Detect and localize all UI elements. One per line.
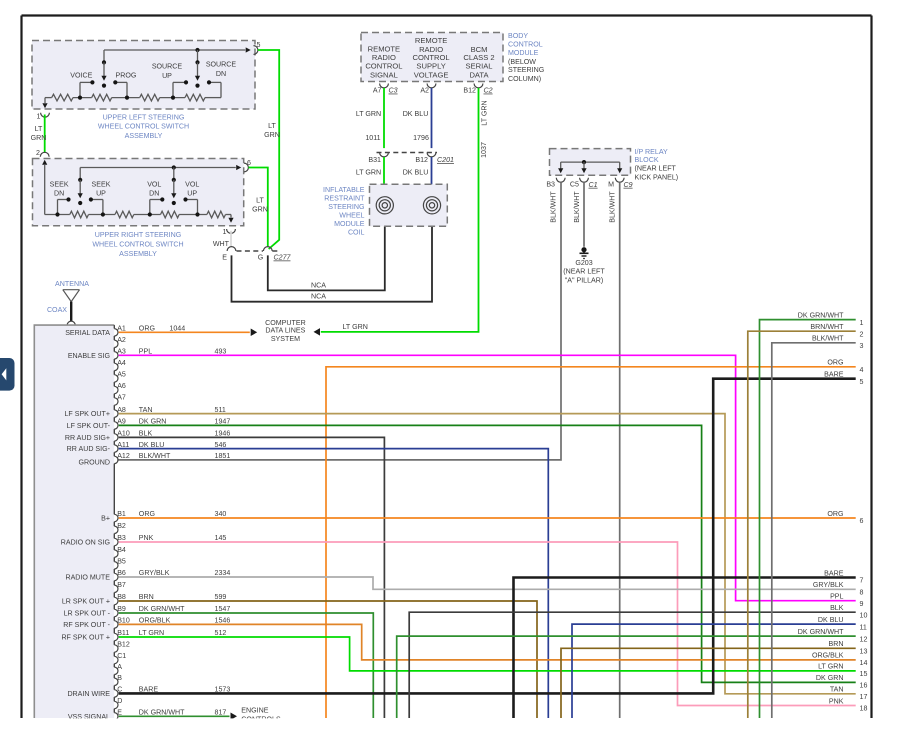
wire LT GRN 1011 BCM A7 to C201 B31	[383, 88, 385, 148]
svg-text:A6: A6	[117, 382, 126, 390]
switch VOL UP contact	[183, 197, 197, 214]
svg-text:3: 3	[860, 342, 864, 350]
svg-text:TAN: TAN	[139, 406, 153, 414]
svg-text:LR SPK OUT -: LR SPK OUT -	[64, 610, 111, 618]
label SOURCE DN	[206, 61, 237, 78]
svg-text:CONTROL: CONTROL	[508, 40, 543, 48]
svg-text:1037: 1037	[480, 142, 488, 158]
svg-text:8: 8	[860, 589, 864, 597]
svg-text:546: 546	[215, 441, 227, 449]
svg-text:SYSTEM: SYSTEM	[271, 335, 300, 343]
svg-text:E: E	[117, 709, 122, 717]
label ANTENNA	[55, 280, 89, 288]
svg-text:1851: 1851	[215, 452, 231, 460]
svg-text:ORG/BLK: ORG/BLK	[139, 617, 171, 625]
svg-text:SERIAL DATA: SERIAL DATA	[65, 329, 110, 337]
wire BLK/WHT relay B3 to radio A12 ground	[117, 182, 561, 460]
svg-text:A11: A11	[117, 441, 129, 449]
svg-text:SUPPLY: SUPPLY	[416, 61, 445, 70]
svg-text:BLK/WHT: BLK/WHT	[550, 191, 558, 223]
pin G connector C277	[258, 247, 272, 262]
svg-text:DN: DN	[216, 70, 226, 78]
svg-text:UP: UP	[162, 72, 172, 80]
wire BLK/WHT stub 3	[772, 343, 856, 718]
svg-text:MODULE: MODULE	[508, 49, 539, 57]
svg-text:2334: 2334	[215, 569, 231, 577]
svg-text:BRN: BRN	[139, 593, 154, 601]
svg-text:INFLATABLE: INFLATABLE	[323, 186, 365, 194]
svg-text:18: 18	[860, 705, 868, 713]
svg-text:1: 1	[223, 228, 227, 236]
svg-text:SOURCE: SOURCE	[152, 63, 183, 71]
svg-text:PNK: PNK	[139, 534, 154, 542]
svg-text:14: 14	[860, 659, 868, 667]
label G203 near left A pillar	[563, 259, 605, 284]
svg-text:RR AUD SIG+: RR AUD SIG+	[65, 434, 110, 442]
ground G203	[580, 247, 589, 258]
svg-text:DK GRN/WHT: DK GRN/WHT	[139, 605, 185, 613]
svg-text:GRN: GRN	[264, 131, 280, 139]
pin 5 connector	[254, 41, 261, 54]
svg-text:A3: A3	[117, 348, 126, 356]
label LT GRN below C201	[356, 169, 381, 177]
svg-text:VOL: VOL	[147, 180, 161, 188]
svg-text:(NEAR LEFT: (NEAR LEFT	[635, 164, 677, 172]
svg-text:BRN: BRN	[829, 640, 844, 648]
svg-text:RF SPK OUT +: RF SPK OUT +	[61, 634, 110, 642]
svg-text:GRN: GRN	[252, 206, 268, 214]
svg-text:I/P RELAY: I/P RELAY	[635, 148, 669, 156]
svg-text:PPL: PPL	[139, 348, 152, 356]
svg-text:ASSEMBLY: ASSEMBLY	[125, 132, 163, 140]
wire LT GRN pin6 to C277 G	[249, 168, 268, 247]
switch pole 2 (VOL)	[171, 165, 176, 205]
wire ORG/BLK 1546 to stub 14	[119, 624, 856, 660]
svg-text:C1: C1	[117, 652, 126, 660]
svg-text:A7: A7	[373, 86, 382, 94]
svg-text:11: 11	[860, 623, 867, 631]
svg-text:BLK/WHT: BLK/WHT	[609, 191, 617, 223]
svg-text:B7: B7	[117, 581, 126, 589]
svg-text:16: 16	[860, 682, 868, 690]
svg-text:1011: 1011	[365, 134, 380, 142]
svg-text:7: 7	[860, 577, 864, 585]
pin B3 connector relay	[546, 178, 565, 189]
svg-text:VOL: VOL	[185, 180, 199, 188]
svg-text:SIGNAL: SIGNAL	[370, 70, 398, 79]
svg-text:B2: B2	[117, 522, 126, 530]
label LT GRN 1037 rotated	[480, 100, 489, 158]
svg-text:COIL: COIL	[348, 228, 365, 236]
wire BARE 1573 drain to stub 5	[119, 379, 856, 694]
label SEEK DN	[50, 180, 69, 197]
svg-text:(BELOW: (BELOW	[508, 58, 536, 66]
wire LT GRN 1037 BCM B12 to computer data lines	[314, 88, 479, 336]
left collapse tab	[0, 358, 15, 391]
relay block internal bus	[558, 160, 622, 173]
caption body control module	[508, 32, 544, 83]
wire PNK 145 to stub 18	[119, 542, 856, 706]
svg-text:DK GRN/WHT: DK GRN/WHT	[798, 628, 844, 636]
svg-text:C201: C201	[437, 156, 454, 164]
antenna symbol	[63, 290, 80, 322]
coil symbol left	[376, 197, 393, 214]
label computer data lines system	[265, 319, 306, 343]
svg-text:SEEK: SEEK	[50, 180, 69, 188]
label engine controls	[241, 706, 281, 723]
pin E connector C277	[222, 247, 236, 262]
caption upper left assembly	[98, 113, 189, 140]
svg-text:LR SPK OUT +: LR SPK OUT +	[62, 598, 110, 606]
svg-text:4: 4	[860, 366, 864, 374]
svg-text:VOLTAGE: VOLTAGE	[414, 70, 449, 79]
label NCA lower	[311, 293, 326, 301]
switch PROG contact	[113, 80, 127, 97]
label PROG	[116, 71, 137, 79]
svg-text:BRN/WHT: BRN/WHT	[810, 323, 844, 331]
svg-text:6: 6	[247, 159, 251, 167]
wire NCA from C277 G to left coil	[268, 214, 385, 291]
label BLK/WHT M rotated	[609, 191, 617, 223]
svg-text:WHEEL CONTROL SWITCH: WHEEL CONTROL SWITCH	[98, 123, 189, 131]
pin 1 exit arrow	[42, 98, 47, 109]
svg-text:B5: B5	[117, 558, 126, 566]
svg-text:LT: LT	[35, 125, 43, 133]
svg-text:B1: B1	[117, 510, 126, 518]
wire LT GRN pin5 to C277 G	[258, 50, 279, 249]
right stub labels and numbers	[798, 311, 868, 712]
svg-text:511: 511	[215, 406, 226, 414]
svg-text:B31: B31	[368, 156, 381, 164]
label VOL UP	[185, 180, 199, 197]
svg-text:BLOCK: BLOCK	[635, 156, 659, 164]
svg-text:5: 5	[860, 378, 864, 386]
svg-text:340: 340	[215, 510, 227, 518]
svg-text:B6: B6	[117, 569, 126, 577]
svg-text:LT GRN: LT GRN	[356, 110, 381, 118]
svg-text:BODY: BODY	[508, 32, 528, 40]
svg-text:LT: LT	[256, 197, 264, 205]
BCM column text remote radio control supply voltage	[413, 36, 450, 79]
svg-text:17: 17	[860, 693, 868, 701]
svg-text:DK BLU: DK BLU	[403, 110, 429, 118]
svg-text:A1: A1	[117, 325, 126, 333]
switch VOICE contact	[80, 80, 95, 97]
svg-text:DK GRN: DK GRN	[816, 674, 844, 682]
wire DK BLU 1796 BCM A2 to C201 B12	[431, 88, 433, 148]
svg-text:DATA LINES: DATA LINES	[265, 327, 305, 335]
pin C5 connector C1	[570, 178, 598, 189]
svg-text:B3: B3	[546, 181, 555, 189]
label BLK/WHT B3 rotated	[550, 191, 558, 223]
label LT GRN 1011	[356, 110, 381, 142]
svg-text:DK GRN: DK GRN	[139, 418, 167, 426]
pin B12 connector C2	[463, 84, 492, 95]
BCM column text remote radio control signal	[365, 44, 402, 79]
svg-text:599: 599	[215, 593, 227, 601]
resistor ladder box2	[45, 211, 231, 218]
svg-text:1946: 1946	[215, 430, 231, 438]
wire DK GRN 1947 to stub 16	[119, 425, 856, 682]
wire TAN 511 to stub 17	[119, 414, 856, 694]
radio connector right edge	[114, 325, 118, 720]
svg-text:REMOTE: REMOTE	[415, 36, 448, 45]
svg-text:2: 2	[36, 149, 40, 157]
svg-text:NCA: NCA	[311, 293, 326, 301]
label BLK/WHT C5 rotated	[573, 191, 581, 223]
svg-text:MODULE: MODULE	[334, 220, 365, 228]
svg-text:LF SPK OUT-: LF SPK OUT-	[67, 422, 111, 430]
label LT GRN right of box2	[252, 197, 268, 214]
wire LT GRN 512 to stub 15	[119, 637, 856, 671]
wire DK GRN/WHT stub 12	[397, 636, 856, 718]
svg-text:E: E	[222, 254, 227, 262]
I/P relay block box	[550, 149, 631, 176]
svg-text:STEERING: STEERING	[328, 203, 364, 211]
svg-text:GROUND: GROUND	[78, 458, 110, 466]
svg-text:DRAIN WIRE: DRAIN WIRE	[67, 690, 110, 698]
svg-text:VOICE: VOICE	[70, 71, 92, 79]
svg-text:ANTENNA: ANTENNA	[55, 280, 89, 288]
svg-text:B9: B9	[117, 605, 126, 613]
wire ORG stub 4	[326, 367, 856, 718]
svg-text:BLK: BLK	[139, 430, 153, 438]
pin B31 connector C201	[368, 153, 388, 164]
svg-text:TAN: TAN	[830, 686, 844, 694]
label LT GRN near computer data lines	[343, 323, 368, 331]
svg-text:DN: DN	[54, 190, 64, 198]
wire BLK 1946 down	[119, 437, 385, 718]
pin 6 connector	[244, 159, 251, 172]
pin 1 connector	[37, 113, 50, 121]
svg-text:BLK: BLK	[830, 604, 844, 612]
label DK BLU below C201	[403, 169, 429, 177]
svg-text:GRN: GRN	[31, 134, 47, 142]
pin 1 connector box2	[223, 228, 236, 236]
svg-text:493: 493	[215, 348, 227, 356]
svg-text:1796: 1796	[413, 134, 429, 142]
svg-text:ORG: ORG	[139, 510, 155, 518]
wire DK BLU stub 11	[572, 624, 856, 718]
radio left signal labels	[61, 329, 111, 721]
svg-text:B3: B3	[117, 534, 126, 542]
label SOURCE UP	[152, 63, 183, 80]
svg-text:817: 817	[215, 709, 227, 717]
svg-text:DK GRN/WHT: DK GRN/WHT	[139, 709, 185, 717]
switch VOL DN contact	[150, 197, 165, 214]
bus wire to pin 5	[104, 47, 251, 52]
svg-text:LT: LT	[268, 122, 276, 130]
svg-text:"A" PILLAR): "A" PILLAR)	[565, 276, 604, 284]
wire GRY/BLK 2334 to stub 8	[119, 577, 856, 589]
svg-text:BLK/WHT: BLK/WHT	[573, 191, 581, 223]
svg-text:DK BLU: DK BLU	[403, 169, 429, 177]
svg-text:C5: C5	[570, 181, 579, 189]
svg-text:1546: 1546	[215, 617, 231, 625]
caption I/P relay block	[635, 148, 679, 181]
svg-text:B+: B+	[101, 515, 110, 523]
switch SEEK DN contact	[58, 197, 71, 214]
switch pole 2 (SOURCE UP/DN)	[195, 48, 200, 88]
svg-text:UP: UP	[96, 190, 106, 198]
svg-text:ORG: ORG	[827, 359, 843, 367]
wire DK GRN/WHT 1547 down	[119, 613, 374, 718]
svg-text:C277: C277	[274, 254, 292, 262]
svg-text:RADIO ON SIG: RADIO ON SIG	[61, 539, 110, 547]
wire BRN 599 down	[119, 601, 537, 718]
svg-text:A2: A2	[420, 86, 429, 94]
svg-text:15: 15	[860, 670, 868, 678]
svg-text:NCA: NCA	[311, 281, 326, 289]
svg-text:B12: B12	[415, 156, 428, 164]
svg-text:STEERING: STEERING	[508, 66, 544, 74]
svg-text:M: M	[608, 181, 614, 189]
label COAX	[47, 306, 67, 314]
svg-text:ASSEMBLY: ASSEMBLY	[119, 250, 157, 258]
svg-text:9: 9	[860, 600, 864, 608]
wire BLK/WHT relay M down	[619, 182, 621, 718]
svg-text:PROG: PROG	[116, 71, 137, 79]
svg-text:PNK: PNK	[829, 697, 844, 705]
svg-text:DK GRN/WHT: DK GRN/WHT	[798, 311, 844, 319]
wire NCA from C277 E to right coil	[232, 214, 433, 302]
svg-text:BARE: BARE	[824, 569, 844, 577]
svg-text:B: B	[117, 674, 122, 682]
svg-text:COLUMN): COLUMN)	[508, 75, 541, 83]
wire LT GRN C201 to coil	[383, 157, 385, 197]
svg-text:CONTROL: CONTROL	[365, 61, 402, 70]
svg-text:A4: A4	[117, 359, 126, 367]
pin A2 connector	[420, 84, 436, 95]
svg-text:G203: G203	[575, 259, 592, 267]
resistor ladder box1	[45, 94, 221, 101]
svg-text:ORG/BLK: ORG/BLK	[812, 652, 844, 660]
svg-text:1044: 1044	[169, 325, 185, 333]
svg-text:1: 1	[860, 319, 864, 327]
svg-text:B12: B12	[117, 641, 130, 649]
svg-text:A12: A12	[117, 452, 130, 460]
upper left steering wheel control switch assembly box	[32, 41, 255, 110]
svg-text:UPPER LEFT STEERING: UPPER LEFT STEERING	[103, 113, 185, 121]
svg-text:LT GRN: LT GRN	[139, 629, 164, 637]
svg-text:G: G	[258, 254, 264, 262]
wire WHT pin1 to C277 E	[230, 231, 232, 247]
wire BARE stub 7	[514, 578, 856, 719]
radio pin id labels	[117, 325, 130, 717]
label C277	[274, 254, 292, 262]
bottom clip mask (diagram viewport cut)	[0, 718, 900, 754]
switch SOURCE DN contact	[207, 80, 221, 97]
switch pole 1 (SEEK)	[78, 168, 83, 206]
svg-text:BLK/WHT: BLK/WHT	[139, 452, 171, 460]
svg-text:RF SPK OUT -: RF SPK OUT -	[63, 621, 110, 629]
svg-text:KICK PANEL): KICK PANEL)	[635, 173, 679, 181]
switch SOURCE UP contact	[173, 80, 188, 97]
label WHT	[213, 240, 230, 248]
svg-text:A7: A7	[117, 394, 126, 402]
svg-text:BARE: BARE	[824, 371, 844, 379]
svg-text:C9: C9	[624, 181, 633, 189]
svg-text:SOURCE: SOURCE	[206, 61, 237, 69]
radio wire color and circuit number labels	[139, 325, 231, 717]
label VOL DN	[147, 180, 161, 197]
connector C201	[377, 152, 438, 154]
coil symbol right	[423, 197, 440, 214]
svg-text:A8: A8	[117, 406, 126, 414]
label LT GRN left	[31, 125, 47, 142]
inflatable restraint steering wheel module coil box	[370, 184, 448, 226]
label VOICE	[70, 71, 92, 79]
wire DK BLU C201 to coil	[431, 157, 433, 197]
svg-text:UP: UP	[187, 190, 197, 198]
wire DK BLU 546 down	[119, 449, 549, 718]
svg-text:SERIAL: SERIAL	[465, 61, 492, 70]
caption upper right assembly	[92, 231, 183, 258]
wire BLK/WHT relay C5 to ground G203	[583, 182, 585, 247]
svg-text:BLK/WHT: BLK/WHT	[812, 335, 844, 343]
label SEEK UP	[92, 180, 111, 197]
svg-text:LT GRN: LT GRN	[481, 100, 489, 125]
pin B12 connector C201	[415, 153, 436, 164]
upper right steering wheel control switch assembly box	[33, 159, 244, 226]
svg-text:UPPER RIGHT STEERING: UPPER RIGHT STEERING	[95, 231, 182, 239]
svg-text:1547: 1547	[215, 605, 231, 613]
svg-text:DN: DN	[149, 190, 159, 198]
svg-text:RR AUD SIG-: RR AUD SIG-	[67, 445, 111, 453]
svg-text:WHEEL CONTROL SWITCH: WHEEL CONTROL SWITCH	[92, 241, 183, 249]
radio box	[34, 325, 114, 718]
svg-text:RADIO MUTE: RADIO MUTE	[65, 574, 110, 582]
label C201	[437, 156, 454, 164]
svg-text:A10: A10	[117, 430, 130, 438]
label DK BLU 1796	[403, 110, 429, 142]
svg-text:A9: A9	[117, 418, 126, 426]
svg-text:13: 13	[860, 648, 868, 656]
svg-text:ORG: ORG	[139, 325, 155, 333]
svg-text:ENGINE: ENGINE	[241, 706, 268, 714]
svg-text:1947: 1947	[215, 418, 231, 426]
svg-text:DK BLU: DK BLU	[818, 616, 844, 624]
pin 2 connector	[36, 149, 49, 157]
wire PPL 493 enable sig to stub 9	[119, 355, 856, 600]
svg-text:C2: C2	[484, 87, 493, 95]
svg-text:LT GRN: LT GRN	[818, 663, 843, 671]
svg-text:6: 6	[860, 517, 864, 525]
svg-text:PPL: PPL	[830, 593, 843, 601]
svg-text:GRY/BLK: GRY/BLK	[813, 581, 844, 589]
label LT GRN right of box1	[264, 122, 280, 139]
svg-text:B11: B11	[117, 629, 129, 637]
pin M connector C9	[608, 178, 633, 189]
svg-text:512: 512	[215, 629, 227, 637]
svg-text:10: 10	[860, 611, 868, 619]
wire DK GRN/WHT stub 1	[760, 320, 856, 718]
caption inflatable restraint steering wheel module coil	[323, 186, 365, 236]
svg-text:COAX: COAX	[47, 306, 67, 314]
svg-text:DK BLU: DK BLU	[139, 441, 165, 449]
wire LT GRN pin1 to pin2	[44, 115, 46, 154]
svg-text:ENABLE SIG: ENABLE SIG	[68, 352, 110, 360]
svg-text:LT GRN: LT GRN	[343, 323, 368, 331]
wire ORG 1044 serial data to computer data lines	[119, 329, 258, 337]
svg-text:C1: C1	[589, 181, 598, 189]
svg-text:WHT: WHT	[213, 240, 230, 248]
coax connector arc on radio	[67, 321, 75, 325]
svg-text:B12: B12	[463, 86, 476, 94]
svg-text:B10: B10	[117, 617, 130, 625]
pin 1 exit arrow box2	[228, 215, 233, 223]
svg-text:A: A	[117, 663, 122, 671]
